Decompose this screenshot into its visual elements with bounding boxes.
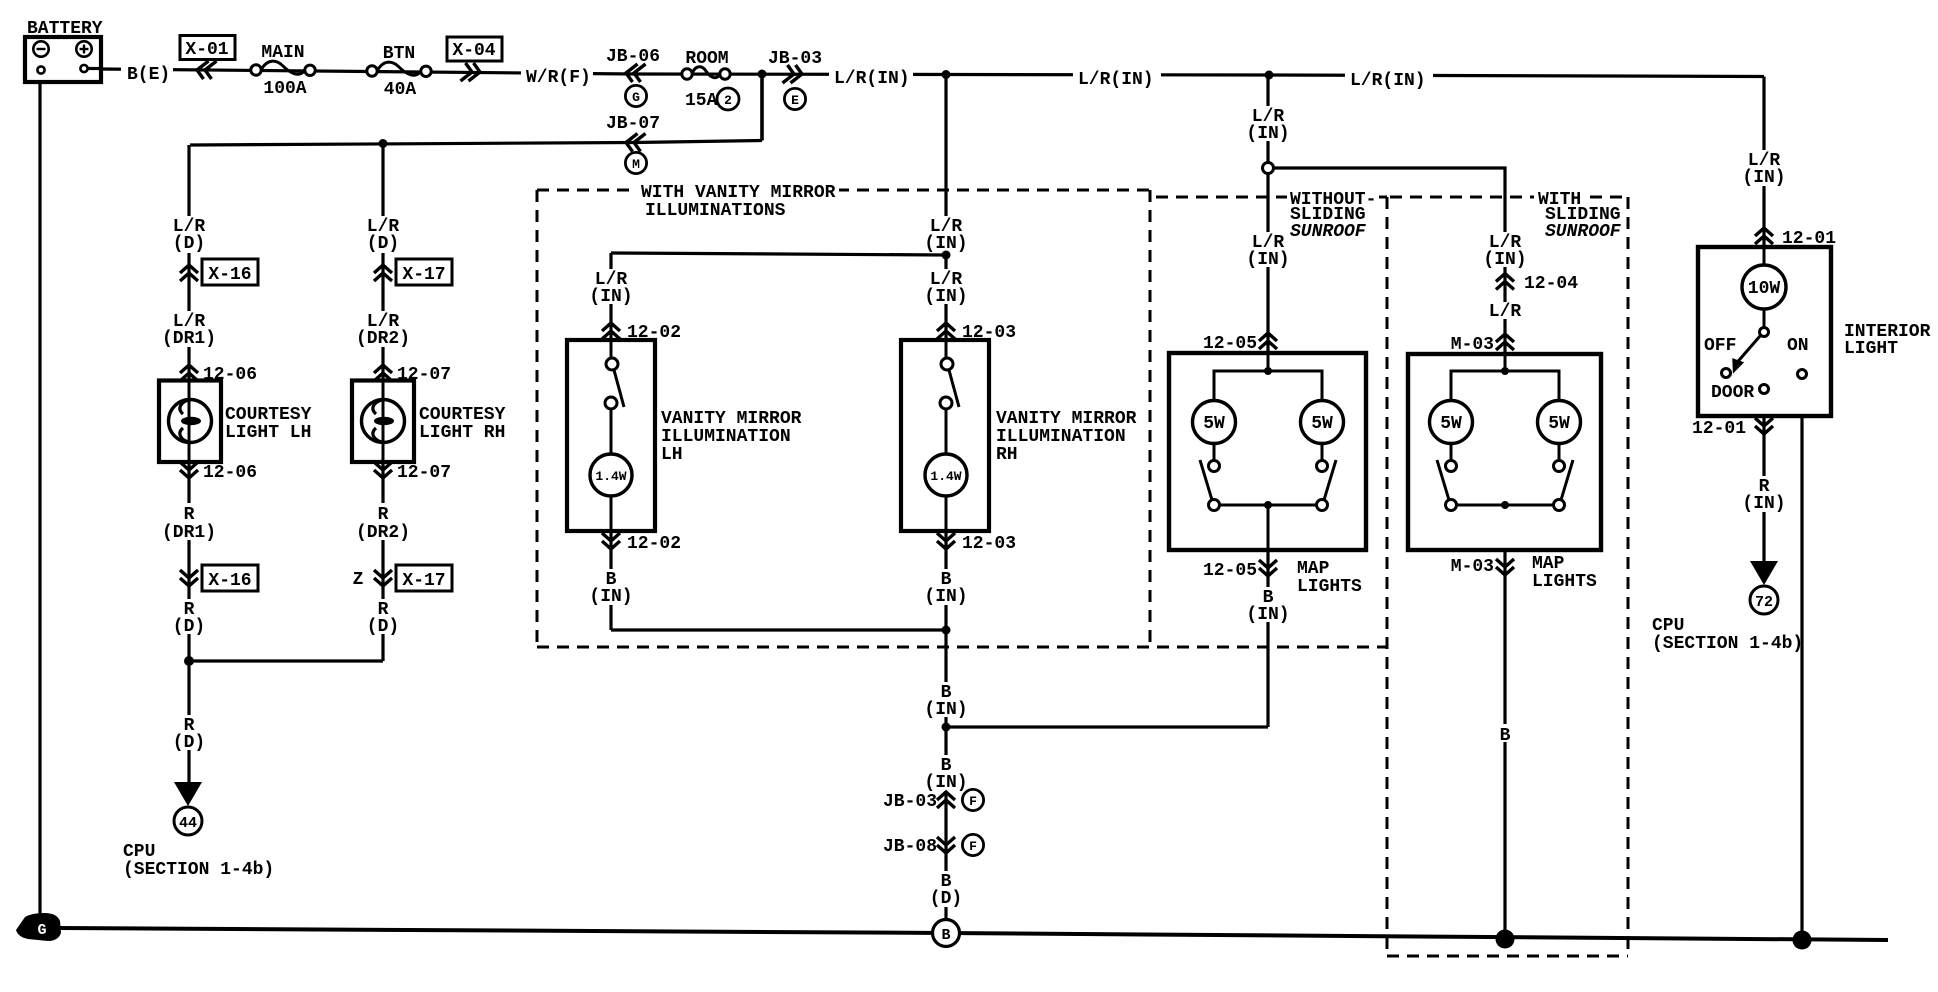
label R (D) courtesy RH [353,599,413,637]
svg-text:LIGHT: LIGHT [1844,339,1898,359]
dashed box: WITHOUT SLIDING SUNROOF [1156,196,1387,199]
courtesy light RH [352,380,506,462]
battery [25,19,103,82]
wire L/R(D) courtesy light RH column [381,144,384,662]
svg-text:5W: 5W [1311,414,1333,434]
svg-text:12-07: 12-07 [397,463,451,483]
svg-text:5W: 5W [1203,414,1225,434]
node junction main line to center column [942,70,951,79]
svg-text:X-17: X-17 [402,571,445,591]
svg-text:(IN): (IN) [1483,250,1526,270]
wire drop from ROOM fuse junction to JB-07 line [760,74,764,141]
map lights (without sliding sunroof) [1169,353,1366,550]
connector JB-08 with F [883,834,984,857]
connector 12-07 upper [374,365,451,385]
svg-text:RH: RH [996,445,1018,465]
wire vanity LH column upper [609,253,612,358]
svg-text:(SECTION 1-4b): (SECTION 1-4b) [123,860,274,880]
connector JB-03 with F [883,789,984,812]
connector 12-05 upper [1203,333,1277,354]
label L/R (IN) without-sunroof column [1238,232,1298,270]
svg-text:W/R(F): W/R(F) [526,68,591,88]
label L/R (IN) without-sunroof top [1238,106,1298,144]
svg-text:JB-07: JB-07 [606,114,660,134]
svg-text:MAP: MAP [1297,559,1330,579]
wire L/R(IN) interior light column [1762,77,1765,328]
svg-text:LIGHT LH: LIGHT LH [225,423,311,443]
label L/R(IN) first [829,66,913,89]
svg-text:(D): (D) [173,234,205,254]
svg-text:X-01: X-01 [185,40,228,60]
svg-text:JB-03: JB-03 [883,792,937,812]
svg-text:M: M [632,157,640,172]
svg-text:(D): (D) [930,889,962,909]
svg-text:X-16: X-16 [208,265,251,285]
svg-text:(D): (D) [367,617,399,637]
label L/R (IN) vanity LH branch [581,269,641,307]
svg-text:X-16: X-16 [208,571,251,591]
label R (DR2) [351,503,415,543]
svg-text:CPU: CPU [123,842,155,862]
svg-text:L/R: L/R [1489,302,1522,322]
wire R(IN) interior light DOOR contact to CPU arrow [1762,394,1765,563]
wire B(E)/W/R(F) main feed from battery along top [101,69,1764,77]
svg-text:(D): (D) [367,234,399,254]
svg-text:R: R [184,505,195,525]
label B with-sunroof [1493,724,1517,746]
svg-text:12-02: 12-02 [627,534,681,554]
wire JB-07 branch line [190,141,762,146]
wire without-sunroof map lights column lower [1266,505,1269,727]
connector 12-02 lower [602,533,681,554]
svg-text:44: 44 [179,815,197,832]
wire L/R(IN) drop to map lights node [1266,75,1269,163]
svg-text:(IN): (IN) [1742,168,1785,188]
node junction interior light ON to bus [1793,931,1812,950]
connector M-03 lower [1451,554,1597,592]
svg-text:SUNROOF: SUNROOF [1545,222,1622,242]
wire B(IN) branch from center column to map lights [946,725,1268,728]
vanity mirror illumination RH [901,340,1137,531]
svg-text:L/R(IN): L/R(IN) [1078,70,1154,90]
svg-text:(IN): (IN) [589,287,632,307]
svg-text:12-05: 12-05 [1203,561,1257,581]
node junction courtesy columns join [184,656,194,666]
svg-text:(D): (D) [173,733,205,753]
wire center column through vanity RH lamp [944,409,947,630]
svg-text:G: G [632,90,640,105]
dashed box: WITH SLIDING SUNROOF [1387,197,1628,956]
arrow to CPU pin 72 [1750,561,1778,614]
connector 12-01 upper [1755,228,1836,249]
connector 12-05 lower [1203,559,1362,597]
label R (IN) interior light [1734,476,1794,514]
svg-text:M-03: M-03 [1451,557,1494,577]
svg-text:SUNROOF: SUNROOF [1290,222,1367,242]
wire B(IN) center column lower to ground circle B [944,630,947,920]
svg-text:(DR2): (DR2) [356,523,410,543]
wire B(IN) join of vanity columns [611,628,946,631]
svg-text:B: B [1500,726,1511,746]
svg-text:(DR1): (DR1) [162,329,216,349]
svg-text:LIGHT RH: LIGHT RH [419,423,505,443]
svg-text:40A: 40A [384,80,417,100]
label B (IN) center below vanity box [916,682,976,720]
label B (IN) vanity RH [916,569,976,607]
connector X-16 upper [180,259,258,285]
svg-text:OFF: OFF [1704,336,1736,356]
label L/R(IN) second [1073,67,1161,90]
node junction vanity B join [942,626,951,635]
svg-text:L/R(IN): L/R(IN) [1350,71,1426,91]
connector X-01 [180,36,235,80]
svg-text:MAIN: MAIN [261,43,304,63]
svg-text:F: F [969,839,977,854]
fuse MAIN 100A fusible link [251,43,315,99]
label B (D) [916,871,976,909]
svg-text:JB-06: JB-06 [606,47,660,67]
svg-text:10W: 10W [1748,279,1781,299]
connector 12-03 upper [937,323,1016,343]
svg-text:1.4W: 1.4W [595,469,626,484]
svg-text:ROOM: ROOM [685,49,728,69]
svg-text:(IN): (IN) [924,700,967,720]
svg-text:(IN): (IN) [1246,124,1289,144]
svg-text:VANITY MIRROR: VANITY MIRROR [661,409,802,429]
svg-text:100A: 100A [263,79,306,99]
svg-text:JB-08: JB-08 [883,837,937,857]
node junction with-sunroof B to bus [1496,930,1515,949]
connector 12-06 upper [180,365,257,385]
ground symbol G [16,913,61,941]
connector 12-04 [1496,274,1578,295]
svg-text:(IN): (IN) [924,287,967,307]
wire vanity branch horizontal [611,253,946,255]
node junction vanity branch [942,251,951,260]
connector JB-03 with E [768,49,822,110]
wire interior light ON contact to ground bus [1800,379,1803,941]
label B (IN) vanity LH [581,569,641,607]
connector X-17 lower with Z [353,565,452,591]
label L/R (DR2) [351,311,415,349]
vanity mirror illumination LH [567,340,802,531]
wire ground bus along bottom [58,928,1888,940]
svg-text:LIGHTS: LIGHTS [1532,572,1597,592]
label L/R with-sunroof [1485,302,1525,322]
svg-text:B: B [941,927,950,944]
wire L/R(D) courtesy light LH column [187,145,190,782]
svg-text:WITH VANITY MIRROR: WITH VANITY MIRROR [641,183,836,203]
connector X-16 lower [180,565,258,591]
svg-text:L/R(IN): L/R(IN) [834,69,910,89]
connector JB-06 with G [606,47,660,107]
svg-text:1.4W: 1.4W [930,469,961,484]
svg-text:(IN): (IN) [924,587,967,607]
svg-text:12-03: 12-03 [962,534,1016,554]
svg-text:(D): (D) [173,617,205,637]
wire battery negative to ground G [38,73,41,928]
node junction B branch to map lights [942,723,951,732]
node junction main line to map lights [1265,71,1274,80]
wire B with-sunroof map lights to ground bus [1503,505,1506,939]
label L/R (IN) with-sunroof column [1475,232,1535,270]
svg-text:(IN): (IN) [1246,605,1289,625]
connector X-17 upper [374,259,452,285]
node junction JB-07 line to courtesy RH [379,139,388,148]
interior light [1698,247,1931,416]
label WITHOUT SLIDING SUNROOF [1287,190,1379,242]
label B(E) [121,61,173,85]
connector 12-03 lower [937,533,1016,554]
label L/R (D) courtesy LH column [159,216,219,254]
svg-text:B(E): B(E) [127,65,170,85]
connector 12-01 lower [1692,418,1773,439]
svg-text:G: G [37,922,46,939]
connector JB-07 with M [606,114,660,174]
label L/R (IN) vanity RH [916,269,976,307]
svg-text:VANITY MIRROR: VANITY MIRROR [996,409,1137,429]
svg-text:12-04: 12-04 [1524,274,1578,294]
svg-text:X-17: X-17 [402,265,445,285]
wire without-sunroof map lights column upper [1266,174,1269,372]
svg-text:15A: 15A [685,91,718,111]
connector M-03 upper [1451,334,1514,355]
dashed box: WITH VANITY MIRROR ILLUMINATIONS [537,190,1387,647]
label WITH SLIDING SUNROOF [1534,190,1622,242]
wire vanity LH column lower [609,409,612,630]
svg-text:(DR2): (DR2) [356,329,410,349]
svg-text:12-06: 12-06 [203,463,257,483]
label R (D) courtesy LH [159,599,219,637]
svg-text:ILLUMINATION: ILLUMINATION [661,427,791,447]
node open circle at map lights branch [1263,163,1274,174]
svg-text:LIGHTS: LIGHTS [1297,577,1362,597]
label CPU (SECTION 1-4b) left [123,842,274,880]
svg-text:(SECTION 1-4b): (SECTION 1-4b) [1652,634,1803,654]
ground terminal circle B on bus [933,920,960,947]
svg-text:2: 2 [724,93,732,108]
svg-text:CPU: CPU [1652,616,1684,636]
svg-text:LH: LH [661,445,683,465]
svg-text:12-01: 12-01 [1692,419,1746,439]
label L/R(IN) third [1345,68,1433,91]
node junction at ROOM fuse output [758,70,767,79]
svg-text:(IN): (IN) [1742,494,1785,514]
svg-text:X-04: X-04 [452,41,495,61]
svg-text:E: E [791,93,799,108]
map lights (with sliding sunroof) [1408,354,1601,550]
label B (IN) center above JB-03 [916,755,976,793]
label CPU (SECTION 1-4b) right [1652,616,1803,654]
svg-text:Z: Z [353,570,364,590]
svg-text:(DR1): (DR1) [162,523,216,543]
courtesy light LH [159,380,312,462]
label L/R (IN) interior light column [1734,150,1794,188]
svg-text:72: 72 [1755,594,1773,611]
label R (D) to CPU [159,715,219,753]
arrow to CPU pin 44 [174,782,202,835]
svg-text:DOOR: DOOR [1711,383,1754,403]
label W/R(F) [521,65,593,88]
svg-text:R: R [378,505,389,525]
svg-text:COURTESY: COURTESY [225,405,312,425]
svg-text:MAP: MAP [1532,554,1565,574]
connector 12-06 lower [180,462,257,483]
svg-text:ILLUMINATION: ILLUMINATION [996,427,1126,447]
label L/R (DR1) [157,311,221,349]
label L/R (D) courtesy RH column [353,216,413,254]
wire L/R(IN) center column upper [944,75,947,359]
label R (DR1) [157,503,221,543]
svg-text:(IN): (IN) [589,587,632,607]
connector 12-07 lower [374,462,451,483]
svg-text:(IN): (IN) [1246,250,1289,270]
wire branch from node to with-sunroof map lights [1273,168,1505,354]
svg-text:5W: 5W [1548,414,1570,434]
svg-text:5W: 5W [1440,414,1462,434]
fuse ROOM 15A circuit 2 [682,49,739,111]
svg-text:ON: ON [1787,336,1809,356]
svg-text:ILLUMINATIONS: ILLUMINATIONS [645,201,786,221]
connector X-04 [447,37,502,81]
svg-text:COURTESY: COURTESY [419,405,506,425]
connector 12-02 upper [602,323,681,343]
fuse BTN 40A fusible link [367,44,431,100]
label WITH VANITY MIRROR ILLUMINATIONS [637,183,839,221]
svg-text:F: F [969,794,977,809]
label B (IN) without-sunroof [1238,587,1298,625]
label L/R (IN) center column top [916,216,976,254]
wire R(D) join of courtesy light columns [189,659,383,662]
